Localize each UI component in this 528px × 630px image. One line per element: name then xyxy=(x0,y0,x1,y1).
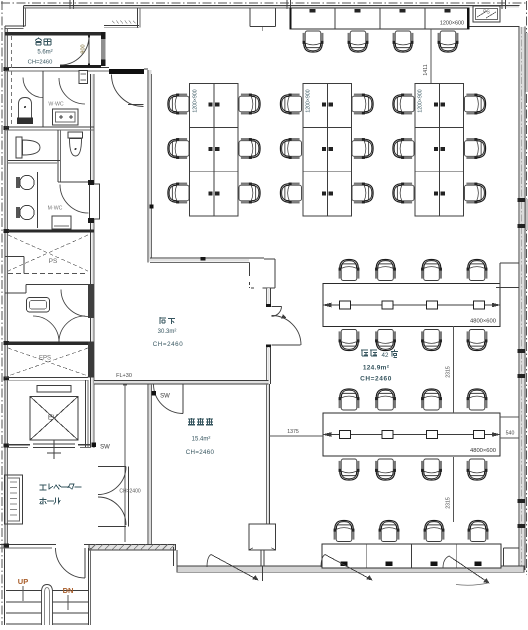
dimension 540 xyxy=(500,416,519,418)
svg-text:1200×900: 1200×900 xyxy=(418,89,424,112)
desk cluster 1 chairs left xyxy=(168,94,189,115)
meeting room switch mark xyxy=(152,391,157,396)
long table 1 grommets xyxy=(340,301,351,309)
storage east wall stub xyxy=(101,32,106,66)
cleaning room top line xyxy=(26,284,88,286)
W-WC sink counter xyxy=(53,109,79,125)
svg-text:CH=2460: CH=2460 xyxy=(28,60,53,66)
stair up arrow line xyxy=(22,586,24,601)
W-WC stall door arc xyxy=(23,78,43,98)
right window centerline dash-dot xyxy=(521,27,523,570)
FL dimension line xyxy=(124,381,126,542)
exit door 1 xyxy=(207,555,211,568)
site boundary dash-dot top xyxy=(1,2,528,4)
svg-text:W·WC: W·WC xyxy=(48,102,64,108)
M-WC entry door xyxy=(90,184,100,219)
bottom desk row xyxy=(322,544,501,568)
EV hall label line1 xyxy=(40,485,46,490)
cleaning door arc right xyxy=(61,290,88,317)
cleaning SK sink xyxy=(27,298,50,313)
office west wall above door xyxy=(267,288,269,304)
M-WC sink xyxy=(52,216,71,229)
dimension 1375 xyxy=(270,435,324,437)
bottom wall step down xyxy=(173,547,175,566)
EV shaft bottom wall with door xyxy=(8,444,30,446)
storage room top wall xyxy=(5,32,105,36)
left exterior wall double line xyxy=(4,26,6,548)
svg-text:900: 900 xyxy=(81,44,87,53)
exit door 3 xyxy=(443,556,449,568)
meeting room door arc xyxy=(154,384,184,414)
bottom desk chairs xyxy=(334,520,355,541)
exterior shading right of boundary xyxy=(526,33,528,92)
wall post right xyxy=(88,284,94,318)
storage door arc xyxy=(60,36,89,65)
stair treads right flight xyxy=(53,590,89,592)
long table 2 xyxy=(323,413,500,456)
W-WC stall divider xyxy=(42,71,44,127)
desk cluster 1 grommets xyxy=(208,102,212,106)
bottom exterior wall band xyxy=(177,566,524,572)
desk cluster 1 block xyxy=(190,84,239,217)
M-WC urinal 1 xyxy=(16,177,20,188)
right wall jog lines at table 1 xyxy=(500,262,519,264)
svg-text:2315: 2315 xyxy=(446,366,452,378)
desk cluster 2 chairs right xyxy=(352,94,373,115)
svg-text:CH=2460: CH=2460 xyxy=(153,341,184,348)
desk cluster 3 block xyxy=(415,84,464,217)
office door top jamb xyxy=(266,304,271,307)
svg-text:1411: 1411 xyxy=(423,64,429,75)
svg-text:124.9m²: 124.9m² xyxy=(363,365,390,372)
EV counterweight xyxy=(37,386,71,393)
svg-text:540: 540 xyxy=(506,431,515,437)
WC east wall double line xyxy=(90,74,92,448)
svg-text:CH=2400: CH=2400 xyxy=(119,489,140,495)
EV car with X xyxy=(30,397,78,441)
dimension 2315 lower xyxy=(453,457,455,522)
storage room name label xyxy=(35,38,42,45)
column at meeting room SE xyxy=(249,524,276,550)
top desk chairs xyxy=(303,31,324,52)
EPS bottom wall xyxy=(5,377,88,379)
desk cluster 2 chairs left xyxy=(280,94,301,115)
storage door leaf xyxy=(88,36,90,65)
wall post EPS east xyxy=(88,342,94,378)
EV hall label line2 xyxy=(40,498,46,504)
stair down arrow line xyxy=(67,595,69,610)
dimension 1411 line xyxy=(430,29,432,83)
office door small leaf xyxy=(272,305,282,307)
svg-text:PS: PS xyxy=(49,258,58,265)
top desk grommets xyxy=(310,9,316,13)
svg-text:CH=2460: CH=2460 xyxy=(360,376,392,383)
svg-text:UP: UP xyxy=(18,577,28,586)
EV hall to corridor double door xyxy=(98,466,126,468)
svg-text:CH=2460: CH=2460 xyxy=(186,449,215,456)
office door big leaf xyxy=(272,344,301,346)
bottom right wall jog xyxy=(503,548,505,566)
M-WC urinal screen xyxy=(37,172,39,228)
PS room dashed X xyxy=(8,235,88,271)
svg-text:5.6m²: 5.6m² xyxy=(37,50,52,56)
wall jog verticals at corridor corner xyxy=(249,262,251,276)
unit entrance door bar xyxy=(109,69,144,74)
meeting room east wall xyxy=(266,384,268,524)
svg-text:M·WC: M·WC xyxy=(48,206,63,212)
desk cluster 3 chairs left xyxy=(393,94,414,115)
PS room dashed bottom xyxy=(8,273,88,275)
W-WC entry door arc xyxy=(59,78,85,104)
svg-text:SW: SW xyxy=(100,445,110,451)
M-WC left stall toilet xyxy=(16,137,22,158)
desk cluster 2 block xyxy=(303,84,352,217)
meeting room north wall xyxy=(94,381,269,383)
desk cluster 1 chairs right xyxy=(239,94,260,115)
wall duct bump below top wall xyxy=(249,8,251,27)
office door bottom jamb xyxy=(266,344,271,347)
column stem wall xyxy=(260,550,262,566)
WC west lobby door box xyxy=(79,71,88,84)
bottom wall hatched band left xyxy=(89,545,176,551)
long table 1 chairs above xyxy=(339,259,360,280)
desk cluster 3 grommets xyxy=(434,102,438,106)
dimension 2315 upper xyxy=(453,326,455,413)
M-WC urinal 2 xyxy=(16,207,20,218)
corridor top wall right of entry xyxy=(144,68,148,70)
svg-text:SW: SW xyxy=(160,394,170,400)
svg-text:15.4m²: 15.4m² xyxy=(192,437,211,443)
grid tick top-middle xyxy=(286,0,288,9)
top-left corner wall step xyxy=(23,6,25,28)
EV hall switch mark xyxy=(92,443,97,448)
M-WC bottom wall xyxy=(8,230,94,233)
cleaning double door arcs bottom xyxy=(33,316,59,342)
left wall junction nubs xyxy=(4,67,10,71)
top-right ceiling line xyxy=(469,26,520,28)
top desk row xyxy=(290,8,469,29)
svg-text:42: 42 xyxy=(382,352,389,359)
long table 1 xyxy=(323,284,500,327)
top exterior wall double line xyxy=(24,5,520,7)
site boundary dash-dot right xyxy=(525,1,527,575)
svg-text:EPS: EPS xyxy=(39,356,51,362)
louver annotation tiny text xyxy=(112,21,115,24)
svg-text:30.3m²: 30.3m² xyxy=(158,329,177,335)
office west wall below door xyxy=(267,347,269,384)
entry niche wall xyxy=(104,25,139,27)
EV shaft side walls xyxy=(85,380,87,448)
PS shaft box top-right xyxy=(473,6,500,22)
W-WC toilet xyxy=(19,98,32,119)
svg-text:4800×600: 4800×600 xyxy=(470,448,496,454)
meeting room label xyxy=(188,418,195,425)
svg-text:EV: EV xyxy=(48,415,58,422)
wall fill tints xyxy=(149,70,152,260)
storage room bottom wall xyxy=(5,67,109,69)
corridor label xyxy=(160,317,166,324)
desk cluster 2 grommets xyxy=(322,102,326,106)
exit door 2 xyxy=(321,555,325,568)
long table 1 chairs below xyxy=(339,330,360,351)
EV hall bottom wall with stair door opening xyxy=(0,544,56,546)
unit entrance door arc xyxy=(112,75,144,107)
bottom desk grommets xyxy=(341,562,348,567)
EV door centerline xyxy=(53,440,55,459)
EV hall closet xyxy=(5,475,23,524)
site boundary dash-dot left xyxy=(1,1,3,625)
corridor switch mark xyxy=(150,205,154,209)
corridor east wall upper xyxy=(147,70,149,262)
long table 2 grommets xyxy=(340,431,351,439)
svg-text:1200×600: 1200×600 xyxy=(440,21,464,27)
svg-text:DN: DN xyxy=(63,586,74,595)
PS step corner xyxy=(5,256,24,258)
office room label xyxy=(361,350,368,356)
grid tick top-right xyxy=(501,0,503,9)
cleaning room bottom wall xyxy=(8,342,94,345)
main room south wall west part xyxy=(150,257,264,259)
svg-text:1375: 1375 xyxy=(287,429,299,435)
svg-text:PS: PS xyxy=(483,10,490,16)
long table 2 chairs below xyxy=(339,459,360,480)
long table 2 chairs above xyxy=(339,389,360,410)
svg-text:2315: 2315 xyxy=(446,497,452,509)
svg-text:1200×900: 1200×900 xyxy=(306,89,312,112)
M-WC right stall toilet xyxy=(68,132,83,138)
EPS dashed X xyxy=(8,348,88,376)
right window wall double line xyxy=(518,27,520,571)
corner closet bottom line xyxy=(263,287,275,289)
stair door arc xyxy=(56,548,86,578)
grid tick top-left xyxy=(69,0,71,9)
M-WC stall walls xyxy=(8,160,60,162)
meeting room west wall xyxy=(147,384,149,545)
stair room walls xyxy=(4,548,6,625)
svg-text:FL+30: FL+30 xyxy=(116,373,132,379)
desk cluster 3 chairs right xyxy=(465,94,486,115)
stair treads left flight xyxy=(6,590,42,592)
W-WC room bottom wall xyxy=(5,126,94,128)
window mullion marks xyxy=(518,198,526,202)
south wall switch dot xyxy=(201,257,206,261)
svg-text:1200×900: 1200×900 xyxy=(193,89,199,112)
storage inner dashed line xyxy=(11,36,13,127)
stair center rail xyxy=(42,585,53,626)
svg-text:4800×600: 4800×600 xyxy=(470,319,496,325)
